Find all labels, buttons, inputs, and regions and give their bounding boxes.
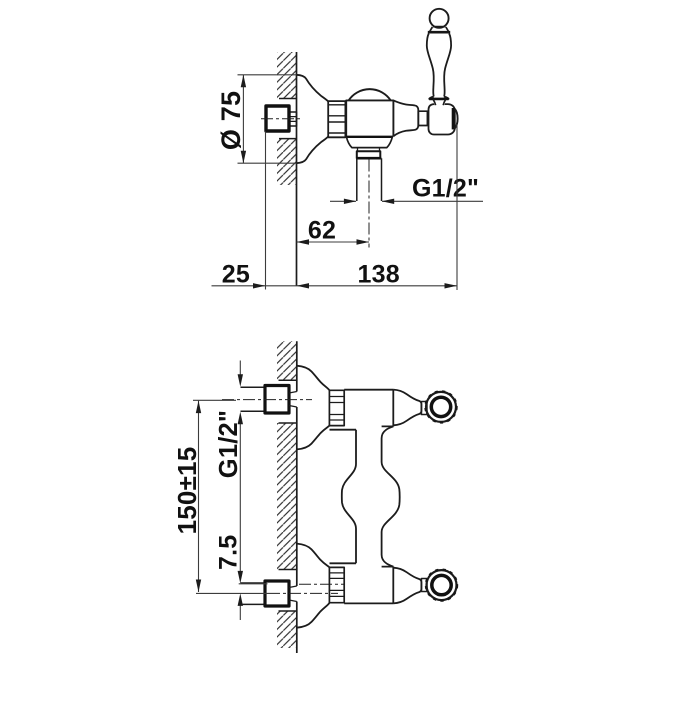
svg-text:138: 138 bbox=[358, 261, 400, 289]
svg-text:7.5: 7.5 bbox=[215, 535, 243, 570]
svg-text:G1/2": G1/2" bbox=[215, 410, 243, 478]
svg-text:150±15: 150±15 bbox=[172, 447, 202, 535]
svg-text:25: 25 bbox=[222, 261, 250, 289]
svg-text:62: 62 bbox=[308, 217, 336, 245]
svg-text:Ø 75: Ø 75 bbox=[216, 91, 246, 150]
svg-text:G1/2": G1/2" bbox=[412, 175, 479, 203]
